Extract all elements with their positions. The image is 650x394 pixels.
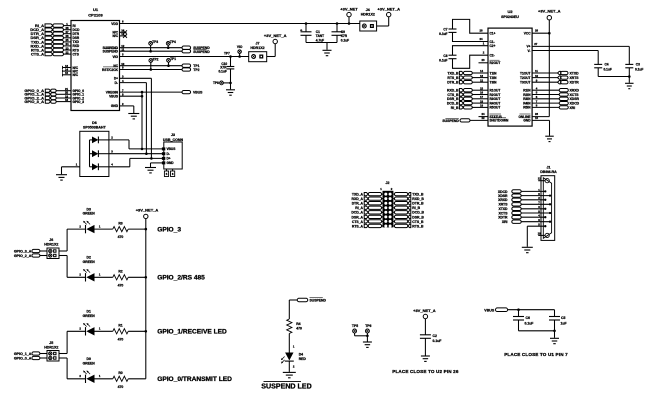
capacitor C5 1uF (554, 310, 556, 317)
junction C1 on rail (305, 22, 308, 25)
capacitor C6 0.1uF (518, 310, 520, 317)
svg-text:GREEN: GREEN (83, 361, 96, 365)
wire RST from U1 pin 9 (120, 69, 183, 71)
svg-text:VIO: VIO (113, 55, 119, 59)
ground at D6 pin 1 (56, 174, 67, 176)
svg-text:C2-: C2- (490, 54, 495, 58)
wire VBUS pin stub (120, 95, 143, 97)
U1 N/C pin 15 stub (63, 74, 72, 76)
svg-text:GPIO_0/TRANSMIT LED: GPIO_0/TRANSMIT LED (157, 376, 232, 383)
J1 shield pin 11 (538, 180, 545, 182)
svg-text:TP2: TP2 (153, 57, 159, 61)
svg-text:RST/C2CK: RST/C2CK (102, 68, 119, 72)
wire VREGIN/VBUS net to off-page (120, 91, 183, 93)
svg-text:GPIO_3_A: GPIO_3_A (24, 99, 44, 104)
svg-text:SUSPEND: SUSPEND (442, 119, 459, 123)
wire C1 C9 bottom (306, 42, 337, 44)
svg-text:0.1uF: 0.1uF (635, 67, 643, 71)
wire GPIO_0_A to U1 (56, 90, 71, 92)
wire GPIO_3_A to U1 (56, 101, 71, 103)
svg-text:VDD: VDD (111, 22, 118, 26)
svg-text:R2: R2 (118, 270, 122, 274)
wire RTS_A to U1 pin 23 (64, 49, 72, 51)
wire DTR_B to U2 T3IN (472, 81, 488, 83)
J2 pin pads (384, 206, 387, 209)
svg-text:GND: GND (167, 161, 175, 165)
svg-text:GPIO_3: GPIO_3 (73, 100, 85, 104)
wire U2 T-OUT to XTXD (532, 72, 557, 74)
svg-text:19: 19 (480, 104, 484, 108)
svg-text:C2+: C2+ (490, 44, 496, 48)
test point TP4 (166, 42, 170, 46)
svg-text:TP5: TP5 (352, 324, 358, 328)
node CTS_B off-page connector at J2 (393, 220, 394, 222)
svg-text:RI_B: RI_B (412, 206, 420, 210)
wire C6 C5 common (519, 330, 555, 332)
ground under D4 (283, 371, 296, 373)
junction VBUS (141, 95, 144, 98)
svg-text:CTS_A: CTS_A (31, 52, 44, 57)
svg-text:HDR1X2: HDR1X2 (361, 13, 375, 17)
wire GPIO_1_A to U1 (56, 93, 71, 95)
svg-text:J1: J1 (547, 165, 551, 169)
ground under C3 C4 (628, 77, 630, 83)
svg-text:C4: C4 (605, 62, 609, 66)
wire VBUS vertical to USB (141, 92, 143, 149)
svg-text:470: 470 (296, 327, 302, 331)
wire LED row D2 (67, 276, 85, 278)
node +3V_NET_A power symbol at J7 (273, 39, 277, 43)
svg-text:DTR_B: DTR_B (412, 202, 424, 206)
ground under J3 (145, 167, 156, 169)
svg-text:15: 15 (65, 71, 69, 75)
svg-text:GREEN: GREEN (83, 212, 96, 216)
svg-text:C1+: C1+ (490, 32, 496, 36)
svg-text:TP4: TP4 (170, 40, 176, 44)
overbar on U2 ONLINE (520, 113, 531, 115)
svg-text:N/C: N/C (113, 34, 119, 38)
wire DTR_A to U1 pin 27 (64, 33, 72, 35)
svg-text:J4: J4 (366, 8, 370, 12)
svg-text:T3OUT: T3OUT (520, 81, 531, 85)
node +3V_NET_A power symbol at J4 (387, 12, 391, 16)
wire CTS_A to U1 pin 22 (64, 53, 72, 55)
svg-text:J3: J3 (171, 133, 175, 137)
svg-text:R5IN: R5IN (523, 106, 531, 110)
svg-text:V-: V- (527, 49, 530, 53)
wire to ground at C5 (554, 331, 556, 338)
svg-text:T1OUT: T1OUT (520, 71, 531, 75)
wire C8 to U2 C2- pin 2 (453, 55, 489, 68)
svg-text:TP1: TP1 (170, 57, 176, 61)
wire U1 GND pin 2 to ground (120, 105, 134, 107)
svg-text:VCC: VCC (524, 32, 531, 36)
wire XRTS to J1 pin 7 (521, 203, 550, 205)
D6 internal bus wire (89, 140, 91, 167)
wire LED row D1 (67, 330, 85, 332)
node XDCD off-page connector (559, 101, 568, 104)
svg-text:T3IN: T3IN (490, 81, 498, 85)
wire D+ from U1 pin 3 (120, 77, 152, 79)
wire XTXD to J1 pin 3 (521, 208, 545, 210)
wire U2 R-IN from XDCD (532, 102, 559, 104)
svg-text:15: 15 (535, 116, 539, 120)
ground under U1 (128, 113, 139, 115)
junction +3V_NET stub on rail (348, 22, 351, 25)
svg-text:1uF: 1uF (561, 321, 567, 325)
node DTR_B off-page connector at J2 (393, 202, 394, 204)
svg-text:0.1uF: 0.1uF (218, 69, 226, 73)
svg-text:TP7: TP7 (224, 52, 230, 56)
svg-text:27: 27 (534, 42, 538, 46)
node XRTS off-page connector (558, 76, 561, 79)
diode D6b (90, 153, 93, 155)
svg-text:CTS_A: CTS_A (352, 220, 364, 224)
node TP1 off-page connector (182, 64, 191, 67)
svg-text:U1: U1 (93, 7, 99, 12)
svg-text:N/C: N/C (73, 73, 79, 77)
wire C7 to U2 C1+ pin 28 (453, 19, 489, 33)
ground under C1 C9 (326, 43, 328, 50)
J3 pin 2 D- (162, 152, 165, 155)
svg-text:R4: R4 (296, 322, 300, 326)
svg-text:DB9M-RA: DB9M-RA (540, 170, 557, 174)
svg-text:13: 13 (480, 74, 484, 78)
U2 STATUS stub pin 24 (479, 116, 489, 118)
svg-text:RXD_A: RXD_A (352, 197, 364, 201)
svg-text:+3V_NET_A: +3V_NET_A (377, 7, 400, 12)
node XCTS off-page connector (559, 93, 568, 96)
resistor R3 470 (113, 227, 128, 232)
capacitor C1 4.7uF TANT (305, 24, 307, 32)
wire TXD_B to U2 T1IN (472, 72, 488, 74)
wire +3V_NET_A to C2 (424, 319, 426, 335)
overbar on U2 STATUS (490, 113, 502, 115)
wire NC/TP1 from U1 pin 10 (120, 65, 183, 67)
svg-text:D-: D- (115, 81, 118, 85)
node SUSPENDb off-page connector (182, 50, 191, 53)
U1 N/C pin 13 stub (63, 67, 72, 69)
wire C4 C3 common (598, 76, 629, 78)
wire DCD_A to U1 pin 28 (64, 29, 72, 31)
svg-text:C2: C2 (433, 334, 437, 338)
wire U2 R-IN from XDSR (532, 98, 559, 100)
svg-text:CP2103: CP2103 (88, 13, 103, 18)
svg-text:470: 470 (118, 235, 124, 239)
svg-text:T2OUT: T2OUT (520, 76, 531, 80)
wire J7 to +3V_NET_A (267, 56, 276, 58)
wire J6 pin1 to D3 row (59, 250, 67, 252)
node RI_B off-page connector at J2 (393, 207, 394, 209)
svg-text:SUSPEND: SUSPEND (310, 298, 327, 302)
junction TP7 (229, 55, 232, 58)
svg-text:R1: R1 (118, 324, 122, 328)
test point TP8 (220, 81, 224, 85)
svg-text:J5: J5 (49, 341, 53, 345)
D6 pin 1 wire to ground (62, 166, 80, 168)
svg-text:T2IN: T2IN (490, 76, 498, 80)
svg-text:4.7uF: 4.7uF (316, 38, 324, 42)
J3 pin 3 D+ (162, 157, 165, 160)
wire XCTS to J1 pin 8 (521, 212, 550, 214)
svg-text:VBUS: VBUS (109, 95, 118, 99)
node XTXD off-page connector (558, 71, 561, 74)
svg-text:T1IN: T1IN (490, 71, 498, 75)
svg-text:R5OUT: R5OUT (490, 106, 501, 110)
svg-text:470: 470 (118, 337, 124, 341)
svg-text:R3: R3 (118, 222, 122, 226)
svg-text:10: 10 (535, 74, 539, 78)
wire DSR_B to U2 R3OUT (472, 98, 488, 100)
svg-text:470: 470 (118, 385, 124, 389)
wire +3V_NET_A vertical to ONLINE (548, 33, 550, 116)
svg-text:C7: C7 (443, 28, 447, 32)
J3 pin 1 VBUS (162, 147, 165, 150)
svg-text:D4: D4 (299, 352, 303, 356)
wire U2 R-IN from XRI (532, 106, 559, 108)
svg-text:GREEN: GREEN (83, 260, 96, 264)
svg-text:USB_CONN: USB_CONN (163, 138, 184, 142)
svg-text:TP8: TP8 (213, 81, 219, 85)
capacitor C3 0.1uF (625, 63, 633, 65)
wire R3 to rail (128, 228, 146, 230)
svg-text:VBUS: VBUS (193, 91, 203, 95)
wire D- from U1 pin 4 (120, 82, 147, 84)
svg-text:+3V_NET_A: +3V_NET_A (538, 9, 561, 14)
capacitor C2 0.1uF (420, 334, 431, 336)
capacitor C9 0.1uF X7R (336, 24, 338, 32)
wire TXD_A to U1 pin 25 (64, 41, 72, 43)
svg-text:DCD_B: DCD_B (412, 211, 424, 215)
svg-text:RI_B: RI_B (451, 106, 459, 110)
svg-text:TXD_B: TXD_B (447, 71, 459, 75)
node VBUS off-page connector (182, 90, 191, 93)
svg-text:GPIO_0_A: GPIO_0_A (14, 356, 32, 360)
svg-text:TP3: TP3 (152, 40, 158, 44)
svg-text:XRTS: XRTS (570, 76, 580, 80)
svg-text:SUSPEND: SUSPEND (193, 50, 210, 54)
node XRXD off-page connector (559, 89, 568, 92)
wire RI_A to U1 pin 1 (64, 25, 72, 27)
junction TP8 (229, 82, 232, 85)
svg-text:GPIO_2/RS 485: GPIO_2/RS 485 (157, 275, 205, 282)
svg-text:0.1uF: 0.1uF (433, 339, 442, 343)
svg-text:DTR_B: DTR_B (447, 81, 459, 85)
overbar on U1 SUSPENDb label (105, 48, 119, 50)
op-amp U1 CP2103 IC body (71, 21, 120, 111)
svg-text:C3: C3 (636, 62, 640, 66)
J2 pin pads (384, 193, 387, 196)
junction VREGIN (141, 91, 144, 94)
wire C2 to ground (424, 338, 426, 355)
svg-text:28: 28 (479, 29, 483, 33)
svg-text:CTS: CTS (73, 52, 79, 56)
svg-text:0.1uF: 0.1uF (341, 38, 349, 42)
svg-text:D6: D6 (92, 121, 97, 125)
J2 pin pads (384, 220, 387, 223)
wire D3 to R3 (95, 228, 113, 230)
svg-text:R2OUT: R2OUT (490, 61, 501, 65)
LED D4 RED (285, 353, 293, 361)
svg-text:RTS_B: RTS_B (412, 224, 424, 228)
svg-text:0.1uF: 0.1uF (604, 67, 612, 71)
svg-text:TXD_B: TXD_B (412, 193, 424, 197)
svg-text:RED: RED (299, 357, 307, 361)
svg-text:XTXD: XTXD (570, 71, 580, 75)
svg-text:XRI: XRI (502, 220, 508, 224)
svg-text:+3V_NET_A: +3V_NET_A (264, 33, 287, 38)
U2 R2OUTb stub pin 23 (479, 62, 489, 64)
wire DSR_A to U1 pin 26 (64, 37, 72, 39)
ground under C10 (230, 83, 232, 89)
wire CTS_B to U2 R2OUT (472, 94, 488, 96)
svg-text:SUSPEND: SUSPEND (103, 50, 119, 54)
overbar on U2 SHUTDOWN (490, 117, 507, 119)
test point TP2 (149, 59, 153, 63)
svg-text:TP2: TP2 (193, 68, 199, 72)
svg-text:CTS_B: CTS_B (412, 220, 424, 224)
svg-text:GND: GND (523, 119, 531, 123)
J3 pin 4 GND (162, 161, 165, 164)
wire R0 to rail (128, 378, 146, 380)
svg-text:TXD_A: TXD_A (352, 193, 364, 197)
diode D6c (90, 166, 93, 168)
overbar on U1 RST/C2CK label (103, 66, 118, 68)
svg-text:RTS_A: RTS_A (352, 224, 364, 228)
wire LED row D0 (67, 378, 85, 380)
node SUSPEND off-page connector at LED (297, 298, 308, 301)
svg-text:R0: R0 (118, 371, 122, 375)
wire TP5 TP6 common (355, 335, 368, 337)
wire U2 V- to C4 (532, 50, 598, 52)
svg-text:DTR_A: DTR_A (352, 202, 364, 206)
node TXD_B off-page connector at J2 (393, 193, 394, 195)
svg-text:22: 22 (65, 50, 69, 54)
wire SUSPEND to U2 SHUTDOWN pin 22 (470, 119, 488, 121)
svg-text:HDR1X2: HDR1X2 (44, 346, 58, 350)
wire U2 R-IN from XRXD (532, 89, 559, 91)
svg-text:GND: GND (111, 104, 119, 108)
wire U2 T-OUT to XDTR (532, 81, 557, 83)
svg-text:+3V_NET_A: +3V_NET_A (413, 308, 436, 313)
svg-text:C5: C5 (561, 316, 565, 320)
svg-text:+3V_NET_A: +3V_NET_A (136, 208, 159, 213)
svg-text:XRXD: XRXD (498, 198, 508, 202)
node +3V_NET_A power symbol at U2 (547, 16, 551, 20)
svg-text:+3V_NET: +3V_NET (340, 7, 358, 12)
svg-text:GREEN: GREEN (83, 314, 96, 318)
wire U2 T-OUT to XRTS (532, 77, 557, 79)
test point TP1 (167, 58, 171, 62)
node TP2 off-page connector (182, 68, 191, 71)
J2 pin pads (384, 224, 387, 227)
node XRI off-page connector (559, 106, 568, 109)
svg-text:22: 22 (481, 116, 485, 120)
node SUSPEND off-page connector (182, 46, 191, 49)
svg-text:GPIO_3: GPIO_3 (157, 227, 181, 234)
wire J5 pin1 to D1 row (59, 353, 67, 355)
J3 shield pin 5 (166, 169, 168, 171)
svg-text:0.1uF: 0.1uF (525, 321, 534, 325)
J3 shield pin 6 (172, 169, 174, 171)
wire J3 GND to ground (151, 162, 164, 164)
svg-text:GPIO_1_A: GPIO_1_A (14, 352, 32, 356)
wire R2 to rail (128, 276, 146, 278)
wire XDSR to J1 pin 6 (521, 195, 550, 197)
svg-text:VBUS: VBUS (167, 147, 176, 151)
svg-text:RI_A: RI_A (355, 206, 363, 210)
wire VBUS to C6 C5 (508, 309, 555, 311)
wire LED row D3 (67, 228, 85, 230)
svg-text:DCD_A: DCD_A (351, 211, 363, 215)
svg-text:J2: J2 (386, 181, 390, 185)
node RTS_B off-page connector at J2 (393, 225, 394, 227)
junction D+ at USB (150, 157, 153, 160)
wire D4 to ground (288, 361, 290, 372)
svg-text:XDTR: XDTR (570, 81, 580, 85)
node DCD_B off-page connector at J2 (393, 211, 394, 213)
svg-text:VIO: VIO (237, 45, 243, 49)
ground under U2 (545, 135, 554, 137)
wire GPIO_2_A to U1 (56, 97, 71, 99)
wire RTS_B to U2 T2IN (472, 77, 488, 79)
svg-text:HDR1X2: HDR1X2 (250, 46, 264, 50)
svg-text:XRTS: XRTS (498, 203, 508, 207)
wire SUSPEND to R4 (289, 299, 297, 301)
node RXD_B off-page connector at J2 (393, 198, 394, 200)
svg-text:J7: J7 (256, 41, 260, 45)
wire D0 to R0 (95, 378, 113, 380)
U1 N/C pin 14 stub (63, 70, 72, 72)
svg-text:11: 11 (538, 177, 541, 181)
test point TP3 (149, 42, 153, 46)
wire SUSPENDb from U1 pin 11 (120, 50, 183, 52)
wire J5 pin2 to D0 row (59, 357, 67, 359)
node DSR_B off-page connector at J2 (393, 216, 394, 218)
svg-text:SP0503BAHT: SP0503BAHT (83, 126, 107, 130)
svg-text:0.1uF: 0.1uF (439, 58, 447, 62)
wire J4 to +3V_NET_A (377, 25, 389, 27)
svg-text:C6: C6 (526, 316, 530, 320)
wire C7 to U2 C1- pin 24 (453, 32, 489, 41)
svg-text:RTS_B: RTS_B (447, 76, 459, 80)
resistor R2 470 (113, 275, 128, 280)
wire RXD_A to U1 pin 24 (64, 45, 72, 47)
svg-text:XRI: XRI (570, 106, 576, 110)
node XDTR off-page connector (558, 81, 561, 84)
svg-text:GPIO_1/RECEIVE LED: GPIO_1/RECEIVE LED (157, 329, 227, 336)
svg-text:12: 12 (480, 78, 484, 82)
wire XRXD to J1 pin 2 (521, 199, 545, 201)
capacitor C4 0.1uF (594, 63, 602, 65)
wire D1 to R1 (95, 330, 113, 332)
svg-text:VBUS: VBUS (484, 308, 495, 312)
resistor R1 470 (113, 329, 128, 334)
wire XRI to J1 pin 9 (521, 221, 550, 223)
svg-text:J6: J6 (49, 238, 53, 242)
svg-text:23: 23 (481, 58, 485, 62)
wire R1 to rail (128, 330, 146, 332)
svg-text:SUSPEND LED: SUSPEND LED (261, 383, 311, 391)
wire U2 GND pin 15 to ground (532, 119, 549, 121)
svg-text:PLACE CLOSE TO U1 PIN 7: PLACE CLOSE TO U1 PIN 7 (504, 352, 568, 357)
node XDSR off-page connector (559, 97, 568, 100)
resistor R0 470 (113, 376, 128, 381)
junction VBUS at USB (141, 148, 144, 151)
wire U2 R-IN from XCTS (532, 94, 559, 96)
svg-text:GPIO_3_A: GPIO_3_A (14, 249, 32, 253)
svg-text:D+: D+ (167, 157, 171, 161)
